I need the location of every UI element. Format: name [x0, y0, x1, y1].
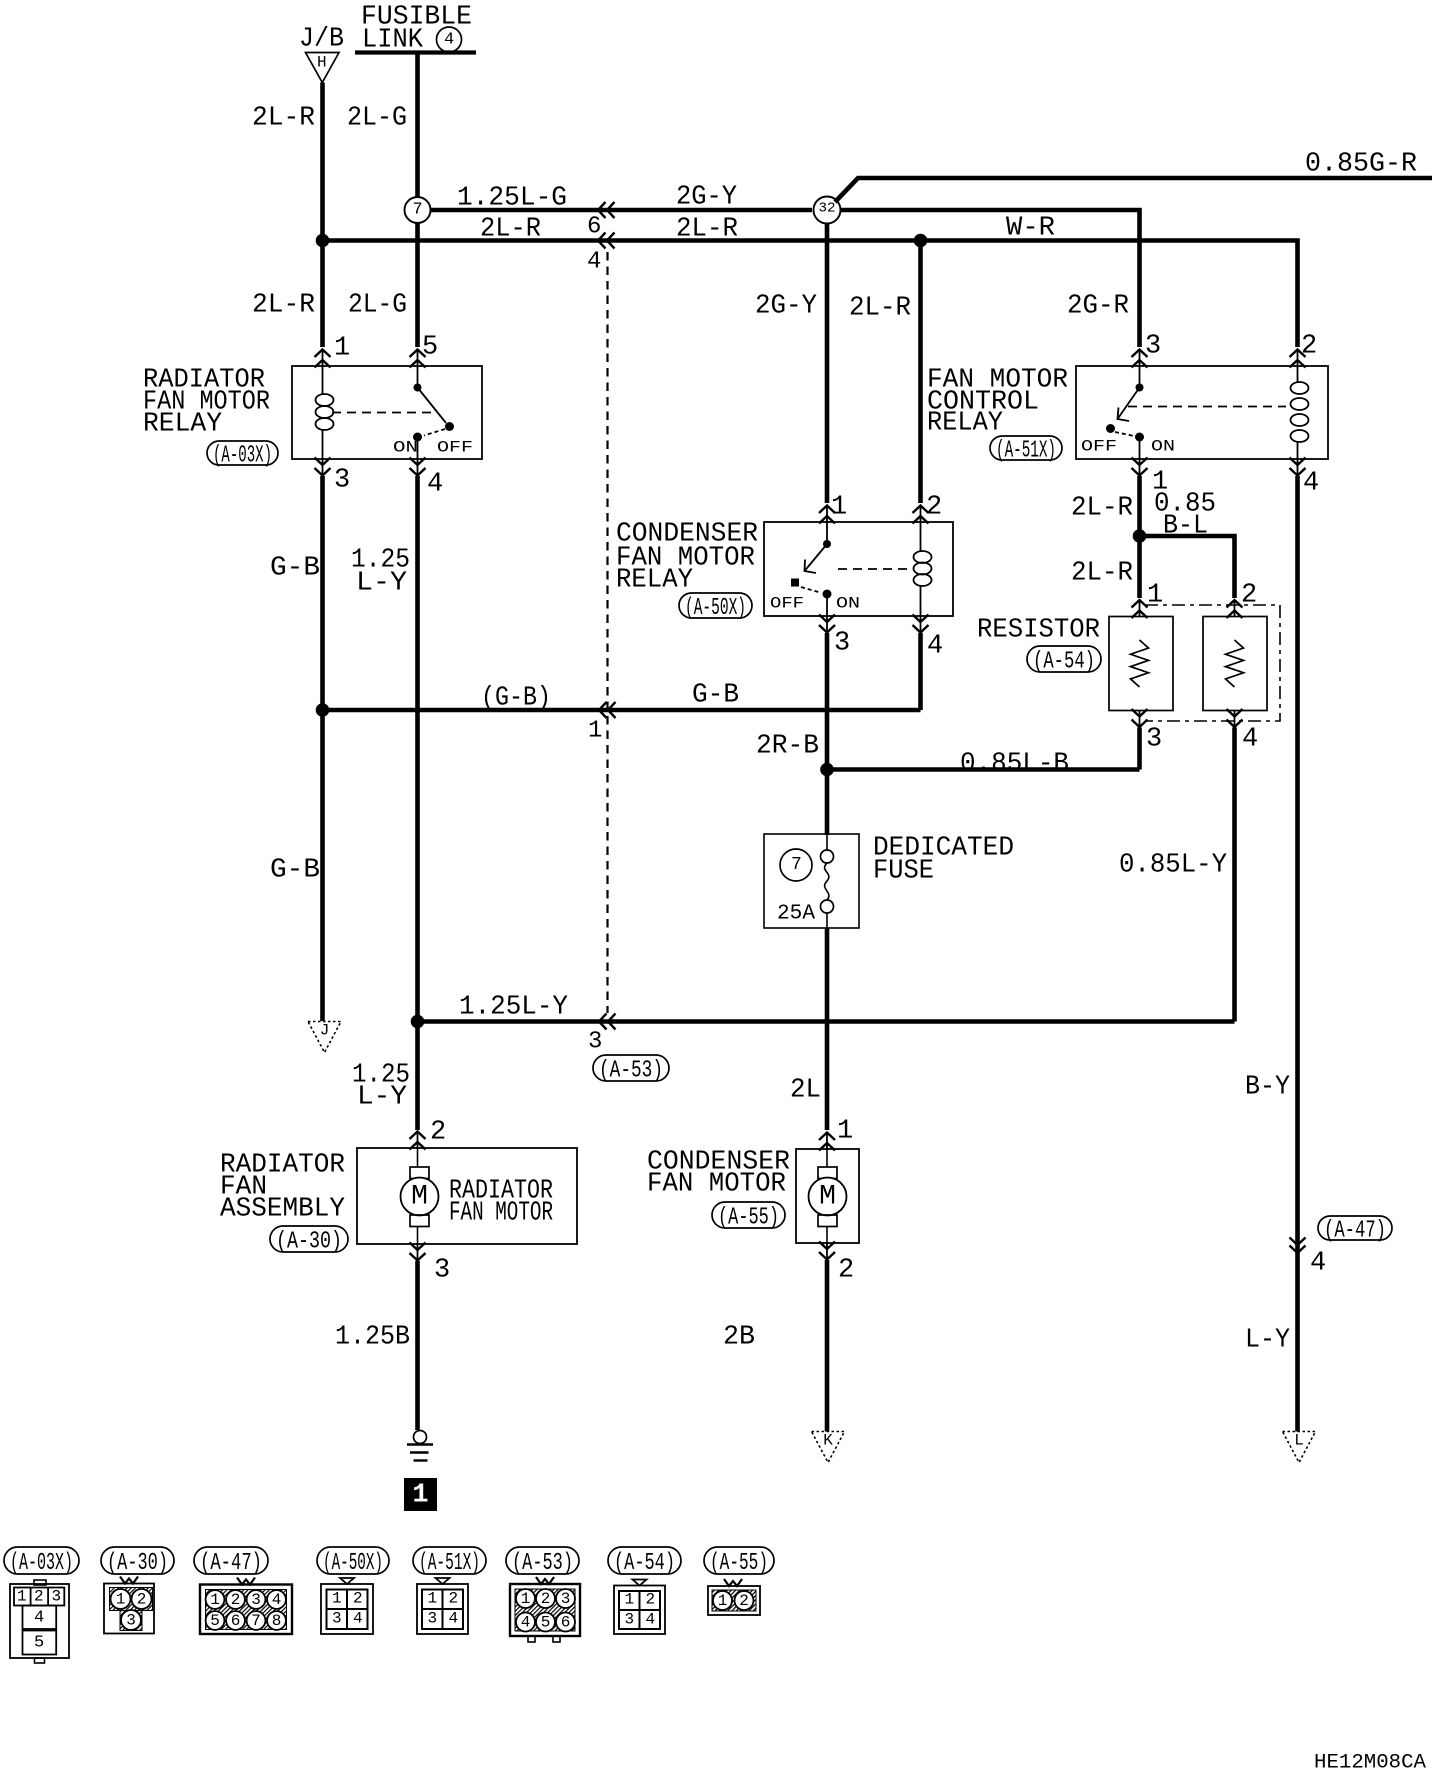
resistor A-54 pin 2	[1227, 600, 1243, 608]
svg-text:5: 5	[422, 333, 438, 363]
svg-text:1: 1	[116, 1591, 126, 1609]
svg-text:W-R: W-R	[1006, 214, 1055, 244]
svg-text:RELAY: RELAY	[927, 409, 1003, 439]
relay A-51X coil-switch dashed link	[1128, 406, 1286, 408]
svg-text:ASSEMBLY: ASSEMBLY	[220, 1195, 345, 1225]
relay A-50X switch	[826, 522, 828, 544]
relay A-50X pin 4	[913, 615, 929, 623]
relay A-51X pin 4	[1290, 458, 1306, 466]
svg-text:4: 4	[1303, 469, 1319, 499]
svg-text:4: 4	[272, 1591, 282, 1609]
svg-text:3: 3	[625, 1611, 635, 1629]
svg-text:3: 3	[126, 1612, 136, 1630]
svg-text:4: 4	[444, 30, 454, 49]
svg-text:3: 3	[332, 1610, 342, 1628]
svg-text:3: 3	[434, 1256, 450, 1286]
svg-text:ON: ON	[1151, 438, 1175, 456]
ground triangle K	[812, 1432, 845, 1463]
relay A-50X coil	[920, 522, 922, 552]
svg-text:2L-G: 2L-G	[347, 104, 407, 134]
svg-text:3: 3	[52, 1588, 62, 1606]
relay A-50X pin 2	[913, 506, 929, 514]
wire 2G-Y vertical	[825, 223, 830, 503]
svg-text:4: 4	[521, 1614, 531, 1632]
svg-text:2: 2	[541, 1590, 551, 1608]
junction dot G-B row	[316, 703, 330, 717]
connector pinout A-55	[704, 1547, 774, 1574]
svg-text:3: 3	[834, 629, 850, 659]
relay A-50X pin 1	[819, 506, 835, 514]
svg-text:2: 2	[739, 1592, 749, 1610]
ground point 1 marker	[404, 1478, 437, 1511]
wire G-B horizontal	[323, 708, 921, 713]
svg-text:M: M	[411, 1181, 428, 1212]
svg-text:B-Y: B-Y	[1245, 1073, 1290, 1103]
wire 2L below fuse	[825, 928, 830, 1130]
connector A-53 dashed line	[606, 252, 608, 1013]
svg-text:3: 3	[1146, 725, 1162, 755]
svg-text:2L-R: 2L-R	[1071, 494, 1133, 524]
svg-text:1: 1	[428, 1590, 438, 1608]
svg-text:1.25B: 1.25B	[335, 1323, 410, 1353]
svg-text:FUSE: FUSE	[873, 857, 934, 887]
svg-text:0.85G-R: 0.85G-R	[1305, 150, 1417, 180]
junction dot 1.25L-Y	[411, 1015, 425, 1029]
wire 0.85B-L	[1140, 536, 1235, 598]
wire W-R horizontal	[921, 241, 1298, 348]
ground triangle L	[1283, 1432, 1316, 1463]
relay A-50X coil-switch dashed link	[838, 568, 910, 570]
ground triangle J	[308, 1022, 341, 1053]
wire 1.25L-Y vertical	[415, 476, 420, 1022]
svg-text:HE12M08CA: HE12M08CA	[1314, 1752, 1426, 1774]
svg-text:2: 2	[430, 1118, 446, 1148]
svg-text:5: 5	[210, 1612, 220, 1630]
svg-text:3: 3	[251, 1591, 261, 1609]
svg-text:FAN MOTOR: FAN MOTOR	[449, 1199, 553, 1229]
wire 1.25 L-Y to radiator fan	[415, 1022, 420, 1131]
svg-text:2: 2	[231, 1591, 241, 1609]
svg-text:(A-47): (A-47)	[1324, 1218, 1386, 1245]
svg-text:32: 32	[819, 201, 836, 217]
resistor A-54 pin 4	[1227, 709, 1243, 717]
svg-text:2: 2	[137, 1591, 147, 1609]
svg-text:2: 2	[353, 1590, 363, 1608]
svg-text:0.85L-Y: 0.85L-Y	[1119, 851, 1227, 881]
condenser fan A-55 pin 2	[819, 1242, 835, 1250]
svg-text:1: 1	[837, 1117, 853, 1147]
relay A-50X box	[764, 522, 953, 616]
radiator fan A-30 pin 2	[410, 1132, 426, 1140]
svg-text:(A-53): (A-53)	[512, 1550, 573, 1577]
svg-text:2R-B: 2R-B	[756, 732, 819, 762]
svg-text:0.85L-B: 0.85L-B	[960, 750, 1069, 780]
svg-text:3: 3	[588, 1029, 602, 1056]
condenser fan motor A-55 box	[796, 1149, 859, 1243]
svg-text:7: 7	[251, 1612, 261, 1630]
wire 2L-R from J/B	[320, 83, 325, 348]
relay A-03X pin 3	[315, 458, 331, 466]
connector A-53 pin 1 arrows	[599, 702, 607, 718]
svg-text:4: 4	[1242, 725, 1258, 755]
svg-text:J: J	[320, 1022, 330, 1040]
relay A-03X coil-switch dashed link	[332, 412, 437, 414]
svg-text:OFF: OFF	[770, 595, 804, 613]
svg-text:3: 3	[334, 466, 350, 496]
svg-text:ON: ON	[393, 439, 418, 457]
dedicated fuse box	[764, 834, 859, 928]
wire 0.85L-B	[827, 767, 1140, 772]
resistor element left	[1109, 617, 1173, 711]
junction dot at J/B column	[316, 234, 330, 248]
svg-text:8: 8	[272, 1612, 282, 1630]
relay A-03X pin 1	[315, 350, 331, 358]
junction dot B-L	[1133, 529, 1147, 543]
svg-text:3: 3	[561, 1590, 571, 1608]
svg-text:1: 1	[334, 334, 350, 364]
resistor A-54 pin 1	[1132, 600, 1148, 608]
svg-text:1: 1	[718, 1592, 728, 1610]
junction dot at 2L-R column	[914, 234, 928, 248]
condenser fan A-55 pin 1	[819, 1133, 835, 1141]
connector pinout A-47	[194, 1547, 268, 1574]
condenser fan motor symbol	[826, 1149, 828, 1167]
svg-text:2L: 2L	[790, 1076, 821, 1106]
wire 2L-G from fusible link	[415, 53, 420, 198]
svg-text:(A-03X): (A-03X)	[213, 443, 272, 470]
radiator fan assembly A-30 box	[357, 1148, 577, 1244]
connector H triangle	[306, 53, 340, 83]
svg-text:4: 4	[353, 1610, 363, 1628]
svg-text:2L-R: 2L-R	[252, 104, 315, 134]
svg-text:G-B: G-B	[692, 681, 739, 711]
connector pinout A-30	[101, 1547, 174, 1574]
svg-text:1: 1	[625, 1591, 635, 1609]
svg-text:2: 2	[1301, 332, 1317, 362]
svg-text:H: H	[317, 54, 327, 72]
svg-text:3: 3	[428, 1610, 438, 1628]
connector A-53 pin 4 arrows	[598, 233, 606, 249]
resistor element right	[1203, 617, 1267, 711]
svg-text:(A-55): (A-55)	[718, 1205, 779, 1232]
connector A-53 pin 3 arrows	[599, 1014, 607, 1030]
svg-text:RELAY: RELAY	[143, 410, 222, 440]
circled junction 7	[405, 197, 431, 223]
svg-text:7: 7	[791, 855, 802, 875]
svg-text:L: L	[1294, 1432, 1304, 1450]
wire 1.25B to ground	[415, 1261, 420, 1430]
svg-text:1: 1	[412, 1481, 428, 1511]
svg-text:(A-55): (A-55)	[710, 1550, 768, 1577]
svg-text:2G-Y: 2G-Y	[676, 183, 737, 213]
svg-text:L-Y: L-Y	[357, 1083, 407, 1113]
wire 2G-R top run	[840, 210, 1140, 347]
svg-text:5: 5	[541, 1614, 551, 1632]
svg-text:1: 1	[1147, 581, 1163, 611]
connector A-53 pin 6 arrows	[598, 202, 606, 218]
svg-text:G-B: G-B	[270, 554, 320, 584]
svg-text:6: 6	[231, 1612, 241, 1630]
junction dot 0.85L-B	[820, 763, 834, 777]
svg-text:OFF: OFF	[437, 439, 473, 457]
connector pinout A-03X	[4, 1547, 79, 1574]
svg-text:2L-G: 2L-G	[348, 291, 407, 321]
svg-text:(A-50X): (A-50X)	[685, 595, 746, 622]
svg-text:K: K	[823, 1432, 833, 1450]
wire 0.85G-R	[835, 178, 1432, 202]
relay A-51X pin 2	[1290, 350, 1306, 358]
svg-text:2G-Y: 2G-Y	[755, 292, 817, 322]
wire G-B upper	[320, 476, 325, 710]
relay A-03X pin 5	[410, 350, 426, 358]
svg-text:2B: 2B	[723, 1323, 755, 1353]
svg-text:4: 4	[587, 249, 601, 276]
svg-text:1: 1	[210, 1591, 220, 1609]
svg-text:(A-54): (A-54)	[614, 1550, 675, 1577]
svg-text:(A-30): (A-30)	[107, 1550, 168, 1577]
wire 2L-R to resistor	[1137, 476, 1142, 598]
svg-text:6: 6	[561, 1614, 571, 1632]
svg-text:2: 2	[1241, 581, 1257, 611]
svg-text:2L-R: 2L-R	[480, 215, 541, 245]
svg-text:OFF: OFF	[1081, 438, 1117, 456]
svg-text:(A-30): (A-30)	[276, 1229, 342, 1256]
relay A-03X switch	[417, 366, 419, 388]
svg-text:(A-50X): (A-50X)	[323, 1550, 383, 1577]
svg-text:(A-47): (A-47)	[200, 1550, 262, 1577]
dedicated fuse element	[826, 835, 828, 850]
svg-text:2: 2	[34, 1588, 44, 1606]
svg-text:L-Y: L-Y	[1245, 1326, 1290, 1356]
connector A-47 arrows	[1290, 1238, 1306, 1246]
connector pinout A-50X	[317, 1547, 389, 1574]
svg-text:2: 2	[646, 1591, 656, 1609]
svg-text:L-Y: L-Y	[356, 569, 407, 599]
svg-text:1: 1	[521, 1590, 531, 1608]
dedicated fuse circled 7	[780, 849, 812, 881]
svg-text:4: 4	[927, 632, 943, 662]
svg-text:4: 4	[646, 1611, 656, 1629]
svg-text:(A-03X): (A-03X)	[10, 1550, 73, 1577]
svg-text:25A: 25A	[777, 902, 815, 925]
svg-text:(A-51X): (A-51X)	[996, 438, 1056, 465]
circled junction 32	[814, 197, 841, 224]
svg-text:2G-R: 2G-R	[1067, 292, 1129, 322]
relay A-51X coil	[1297, 366, 1299, 383]
svg-text:1: 1	[588, 718, 602, 745]
relay A-51X box	[1076, 366, 1328, 459]
svg-text:ON: ON	[836, 595, 860, 613]
svg-text:4: 4	[449, 1610, 459, 1628]
svg-text:B-L: B-L	[1163, 512, 1208, 542]
wire G-B lower to ground J	[320, 710, 325, 1021]
relay A-51X switch	[1139, 366, 1141, 388]
svg-text:3: 3	[1145, 332, 1161, 362]
svg-text:1: 1	[831, 493, 847, 523]
wire 2L-R vertical right	[918, 241, 923, 504]
svg-text:1: 1	[332, 1590, 342, 1608]
svg-text:1.25L-G: 1.25L-G	[457, 184, 567, 214]
svg-text:4: 4	[1310, 1249, 1326, 1279]
wire W-R / B-Y vertical	[1295, 476, 1300, 1432]
svg-text:RESISTOR: RESISTOR	[977, 616, 1100, 646]
svg-text:FAN MOTOR: FAN MOTOR	[647, 1170, 786, 1200]
svg-text:(A-53): (A-53)	[599, 1058, 663, 1085]
svg-text:2: 2	[449, 1590, 459, 1608]
svg-text:(A-54): (A-54)	[1033, 649, 1095, 676]
svg-text:5: 5	[34, 1633, 44, 1652]
connector pinout A-53	[506, 1547, 579, 1574]
svg-text:4: 4	[34, 1608, 44, 1627]
svg-text:(G-B): (G-B)	[481, 684, 551, 714]
svg-text:4: 4	[427, 470, 443, 500]
svg-text:2: 2	[838, 1256, 854, 1286]
relay A-51X pin 3	[1132, 350, 1148, 358]
wire 1.25L-G row	[431, 208, 813, 213]
svg-text:2: 2	[926, 493, 942, 523]
wire 2L-R horizontal row	[323, 238, 921, 243]
wire 1.25L-Y horizontal	[418, 1019, 1235, 1024]
svg-text:7: 7	[413, 200, 423, 219]
relay A-03X box	[292, 366, 482, 459]
wire 2R-B	[825, 633, 830, 835]
svg-text:J/B: J/B	[299, 25, 344, 55]
wire 0.85L-Y	[1232, 728, 1237, 1022]
svg-text:6: 6	[587, 214, 601, 241]
ground symbol	[414, 1431, 427, 1444]
svg-text:2L-R: 2L-R	[252, 291, 315, 321]
svg-text:M: M	[819, 1181, 836, 1212]
relay A-03X pin 4	[410, 458, 426, 466]
svg-text:2L-R: 2L-R	[676, 215, 738, 245]
svg-text:(A-51X): (A-51X)	[419, 1550, 480, 1577]
resistor A-54 pin 3	[1132, 709, 1148, 717]
svg-text:G-B: G-B	[270, 856, 320, 886]
connector pinout A-54	[608, 1547, 681, 1574]
relay A-50X pin 3	[819, 615, 835, 623]
svg-text:2L-R: 2L-R	[1071, 559, 1133, 589]
svg-text:1.25L-Y: 1.25L-Y	[459, 993, 568, 1023]
svg-text:RELAY: RELAY	[616, 566, 693, 596]
svg-text:1: 1	[17, 1588, 27, 1606]
wire 2B	[825, 1260, 830, 1432]
relay A-51X pin 1	[1132, 458, 1148, 466]
svg-text:2L-R: 2L-R	[849, 294, 911, 324]
relay A-03X coil	[322, 366, 324, 395]
radiator fan motor symbol	[417, 1148, 419, 1167]
resistor A-54 dashed outline	[1145, 605, 1280, 721]
connector pinout A-51X	[413, 1547, 486, 1574]
radiator fan A-30 pin 3	[410, 1243, 426, 1251]
